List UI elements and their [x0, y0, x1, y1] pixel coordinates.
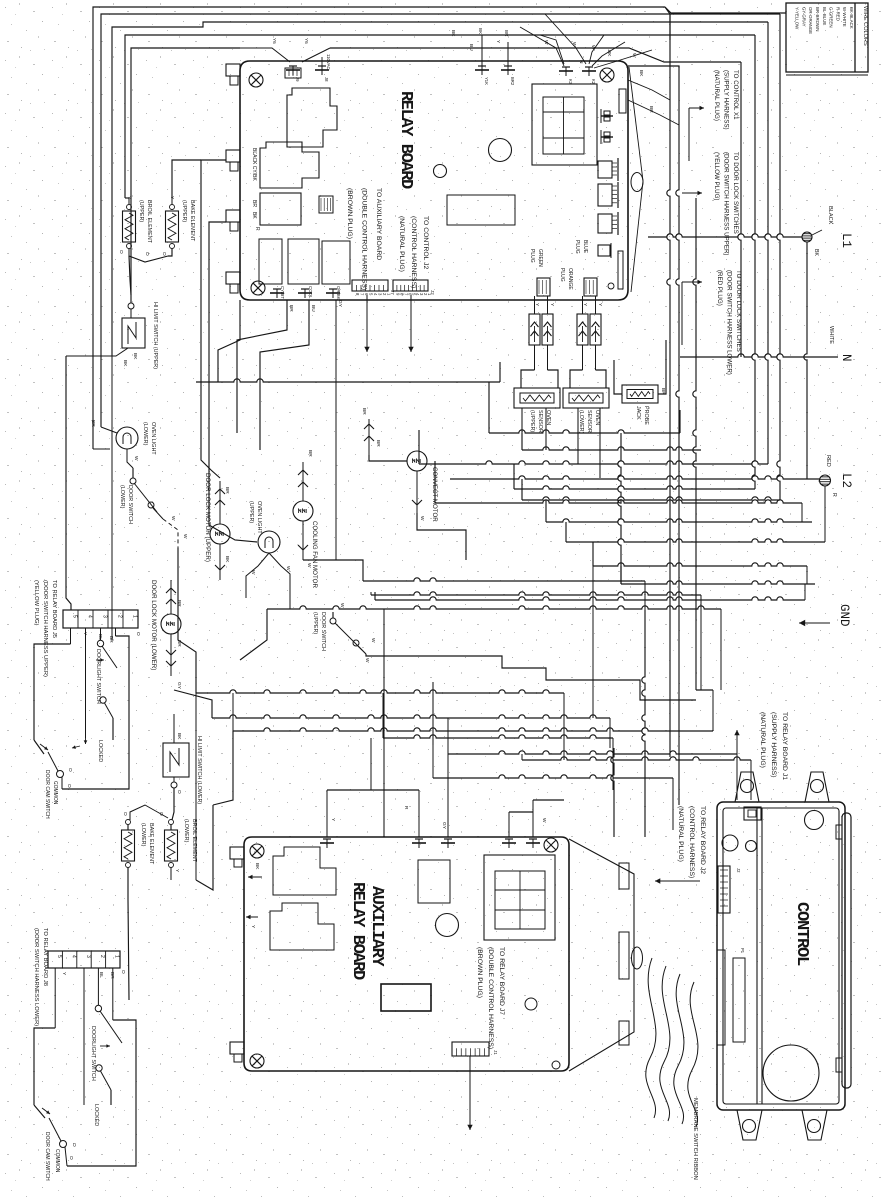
wire vertical x645 lower	[642, 610, 645, 837]
svg-text:BK: BK	[638, 70, 644, 77]
svg-text:BLACK CY/BK: BLACK CY/BK	[251, 148, 257, 181]
label R under L2	[831, 493, 837, 497]
aux screw bottom-left	[250, 1054, 264, 1068]
connector top BR2	[501, 30, 515, 86]
convect motor	[407, 451, 427, 471]
door switch lower dashes	[163, 516, 196, 693]
svg-text:RELAY BOARD: RELAY BOARD	[348, 882, 367, 980]
svg-text:TO AUXILIARY BOARD: TO AUXILIARY BOARD	[375, 188, 382, 260]
relay K4 rect	[259, 239, 282, 284]
svg-text:(CONTROL HARNESS): (CONTROL HARNESS)	[688, 806, 695, 878]
svg-text:COOLING FAN MOTOR: COOLING FAN MOTOR	[311, 521, 318, 588]
control big circle	[763, 1045, 819, 1101]
svg-text:BLUE: BLUE	[582, 240, 588, 254]
text probe jack	[635, 406, 649, 425]
svg-text:Y6: Y6	[304, 38, 309, 44]
svg-text:O: O	[161, 252, 167, 256]
svg-text:BL-BLUE: BL-BLUE	[822, 7, 827, 25]
svg-text:BK: BK	[813, 249, 819, 256]
svg-text:(LOWER): (LOWER)	[119, 485, 125, 509]
svg-text:SENSOR: SENSOR	[586, 410, 592, 433]
wire rail 760	[522, 754, 751, 800]
wire below board drop 2	[260, 300, 309, 450]
door switch upper	[330, 612, 366, 654]
svg-text:W: W	[370, 638, 376, 643]
wire vertical x201 from board tab	[201, 160, 226, 478]
text oven sensor lower	[578, 410, 600, 434]
svg-text:3: 3	[102, 615, 108, 618]
wire right verticals lower	[611, 198, 713, 837]
svg-text:O: O	[158, 812, 164, 816]
wire vertical right x670	[667, 14, 670, 757]
door lock motor lower wires	[166, 580, 182, 690]
svg-text:(DOOR SWITCH HARNESS LOWER): (DOOR SWITCH HARNESS LOWER)	[726, 270, 733, 375]
text door lock motor lower	[150, 580, 157, 670]
relay board left tab labels	[251, 148, 260, 231]
svg-text:BK: BK	[606, 50, 612, 57]
svg-text:Y6: Y6	[272, 38, 277, 44]
svg-text:DOOR LOCK MOTOR (UPPER): DOOR LOCK MOTOR (UPPER)	[204, 473, 211, 562]
text broil element upper	[138, 200, 152, 244]
svg-text:R: R	[403, 806, 409, 810]
aux board right fold	[569, 839, 643, 1071]
wire L1 feed	[648, 234, 802, 237]
control connector strip	[718, 866, 741, 913]
text hi limit switch lower	[196, 736, 202, 804]
door cam switch upper	[34, 740, 73, 789]
svg-text:BR2: BR2	[510, 77, 515, 86]
wire sensor drains	[522, 408, 600, 478]
wire N rail	[680, 354, 838, 357]
wire outer loop 3	[112, 22, 768, 356]
svg-text:(LOWER): (LOWER)	[578, 410, 584, 434]
svg-text:LOCKED: LOCKED	[93, 1104, 99, 1126]
text oven sensor upper	[529, 410, 551, 433]
svg-text:BK: BK	[132, 353, 138, 360]
svg-text:PLUG: PLUG	[559, 268, 565, 282]
wire rail 500	[522, 479, 780, 500]
hi limit switch upper	[122, 303, 145, 348]
connector right module 2	[598, 182, 618, 208]
svg-text:4: 4	[87, 615, 93, 618]
svg-text:TO DOOR LOCK SWITCHES: TO DOOR LOCK SWITCHES	[735, 270, 742, 352]
hi limit switch lower	[163, 714, 189, 820]
relay K7 rect wide	[447, 195, 515, 225]
svg-text:BR: BR	[176, 640, 182, 647]
wire loop 5	[131, 48, 240, 303]
svg-text:J9: J9	[295, 77, 300, 82]
aux circle small	[525, 998, 537, 1010]
text membrane switch ribbon	[692, 1098, 698, 1180]
svg-text:TO RELAY BOARD J8: TO RELAY BOARD J8	[42, 928, 48, 986]
wire vertical right x741	[330, 48, 741, 357]
svg-text:GY-GRAY: GY-GRAY	[801, 7, 806, 27]
svg-text:(SUPPLY HARNESS): (SUPPLY HARNESS)	[770, 712, 777, 777]
svg-text:(DOOR SWITCH HARNESS UPPER): (DOOR SWITCH HARNESS UPPER)	[42, 580, 48, 677]
text to auxiliary board	[346, 188, 382, 290]
wire vertical right x679	[628, 66, 679, 805]
svg-text:BR: BR	[108, 636, 114, 643]
aux board title	[348, 882, 386, 980]
wire outer loop 1	[93, 7, 786, 449]
oven sensor upper body	[514, 388, 560, 408]
control outline	[717, 802, 851, 1110]
doorlight switch lower circuit	[34, 968, 136, 1166]
relay K2 stepped outline	[260, 142, 319, 188]
control ear top-right	[805, 772, 829, 802]
wire rail 738	[383, 693, 613, 790]
svg-text:1: 1	[114, 955, 120, 958]
arrow to relay board j2	[655, 878, 700, 883]
svg-text:(DOUBLE CONTROL HARNESS): (DOUBLE CONTROL HARNESS)	[487, 947, 494, 1049]
text bake element upper	[181, 200, 195, 242]
svg-text:W: W	[543, 40, 549, 45]
text hi limit switch upper	[152, 302, 158, 369]
control circle top-right	[805, 811, 824, 830]
wire rail 693	[196, 690, 564, 760]
terminal L1	[802, 230, 822, 479]
svg-text:TO CONTROL X1: TO CONTROL X1	[732, 70, 739, 120]
wire rail 542	[566, 522, 825, 542]
connector right plug 1	[601, 109, 613, 123]
relay K6 rect	[322, 241, 350, 284]
svg-text:HI LIMIT SWITCH (UPPER): HI LIMIT SWITCH (UPPER)	[152, 302, 158, 369]
text convect motor	[431, 467, 438, 522]
svg-text:(LOWER): (LOWER)	[142, 422, 148, 446]
board edge oval cutout	[631, 173, 643, 192]
svg-text:HI LIMIT SWITCH (LOWER): HI LIMIT SWITCH (LOWER)	[196, 736, 202, 804]
green plug connector	[529, 249, 555, 307]
svg-text:O: O	[68, 1156, 74, 1160]
svg-text:5: 5	[72, 615, 78, 618]
svg-text:BK: BK	[251, 212, 257, 219]
svg-text:BLACK: BLACK	[827, 206, 833, 225]
svg-text:(DOUBLE CONTROL HARNESS): (DOUBLE CONTROL HARNESS)	[361, 188, 368, 290]
wire drop J2 arrow	[408, 295, 413, 352]
wire rail 433	[489, 382, 680, 433]
aux relay stepped 2	[270, 903, 334, 950]
svg-text:CY/BT: CY/BT	[280, 286, 285, 299]
svg-text:(YELLOW PLUG): (YELLOW PLUG)	[713, 152, 720, 200]
terminal L2	[820, 475, 831, 542]
right edge strip 2	[608, 251, 623, 289]
svg-text:R: R	[831, 493, 837, 497]
element upper feed wires	[118, 160, 201, 295]
label Y bake upper	[169, 196, 175, 200]
svg-text:4: 4	[70, 955, 76, 958]
bake element lower	[122, 820, 135, 1001]
svg-text:SENSOR: SENSOR	[537, 410, 543, 433]
connector top K3	[559, 67, 573, 85]
svg-text:BR: BR	[375, 440, 381, 447]
svg-text:W: W	[631, 53, 637, 58]
text to control j2	[398, 216, 429, 288]
svg-text:K2: K2	[591, 79, 596, 85]
wire from board corner to x670	[628, 80, 679, 125]
board circle small	[434, 165, 447, 178]
svg-text:K3: K3	[568, 79, 573, 85]
svg-text:J2: J2	[430, 290, 435, 295]
svg-text:O: O	[71, 1143, 77, 1147]
text to door lock switches upper	[713, 152, 739, 255]
wire rail 489	[514, 464, 755, 489]
wire vertical right x755	[752, 35, 755, 489]
wire vertical x621 lower	[618, 433, 621, 584]
connector top funnel 1	[240, 38, 330, 82]
j5 wire labels	[82, 632, 141, 643]
svg-text:BR: BR	[224, 487, 230, 494]
text doorlight switch lower	[90, 1026, 99, 1126]
text door switch lower	[119, 485, 133, 524]
text door cam switch lower	[44, 1132, 60, 1181]
aux relay rect 2	[381, 984, 431, 1011]
svg-text:BK-BLACK: BK-BLACK	[849, 7, 854, 29]
svg-text:TO DOOR LOCK SWITCHES: TO DOOR LOCK SWITCHES	[732, 152, 739, 234]
text door switch upper	[312, 612, 326, 651]
svg-text:(BROWN PLUG): (BROWN PLUG)	[476, 947, 483, 998]
svg-text:BK: BK	[450, 30, 456, 37]
wire feeds aux board top	[327, 790, 564, 837]
svg-text:GND: GND	[837, 604, 851, 627]
svg-text:JACK: JACK	[635, 406, 641, 420]
wire rail 609	[240, 606, 721, 690]
probe jack wires	[614, 340, 666, 394]
relay board mounting screw top-right	[600, 68, 614, 82]
connector bottom COOL	[298, 286, 316, 312]
door lock motor upper	[210, 524, 230, 544]
svg-text:W: W	[590, 45, 596, 50]
text to relay board j1 supply harness	[759, 712, 788, 780]
wire rail 584	[621, 566, 815, 584]
door lock motor lower	[161, 614, 181, 634]
wire outer loop 2	[101, 14, 780, 427]
svg-text:W: W	[419, 516, 425, 521]
svg-text:Y-YELLOW: Y-YELLOW	[795, 7, 800, 30]
svg-text:(DOOR SWITCH HARNESS LOWER): (DOOR SWITCH HARNESS LOWER)	[33, 928, 39, 1026]
svg-text:P1: P1	[740, 948, 745, 954]
bake element upper	[166, 198, 179, 256]
oven light upper	[258, 531, 280, 553]
svg-text:J1: J1	[493, 1050, 498, 1055]
label BR probe	[660, 388, 666, 395]
auxiliary relay board outline	[244, 837, 569, 1071]
wire vertical x433 lower	[432, 682, 434, 745]
text oven light lower	[142, 422, 156, 455]
wire colors legend box	[786, 3, 868, 75]
svg-text:COMMON: COMMON	[54, 1149, 60, 1173]
text oven light upper	[248, 501, 262, 534]
svg-text:BR: BR	[251, 200, 257, 207]
svg-text:AUXILIARY: AUXILIARY	[367, 886, 386, 967]
wire rail 450	[522, 433, 701, 450]
svg-text:DOORLIGHT SWITCH: DOORLIGHT SWITCH	[95, 649, 101, 704]
broil element lower	[165, 820, 178, 881]
wire rail 464	[419, 430, 768, 464]
svg-text:W: W	[364, 658, 370, 663]
probe jack body	[622, 385, 658, 403]
connector top Y1K	[475, 28, 489, 85]
svg-text:DOOR SWITCH: DOOR SWITCH	[320, 612, 326, 651]
svg-text:(CONTROL HARNESS): (CONTROL HARNESS)	[410, 216, 417, 288]
svg-text:RELAY BOARD: RELAY BOARD	[396, 91, 415, 189]
wire rail 754	[448, 718, 737, 800]
oven light lower	[116, 427, 138, 449]
aux relay rect 1	[418, 860, 450, 903]
ground arrow	[799, 620, 830, 626]
control right notches	[836, 825, 842, 1072]
svg-text:RED: RED	[825, 455, 831, 467]
oven sensor lower connector	[577, 314, 601, 345]
svg-text:(LOWER): (LOWER)	[140, 823, 146, 847]
svg-text:W: W	[182, 534, 188, 539]
svg-text:(SUPPLY HARNESS): (SUPPLY HARNESS)	[723, 70, 730, 130]
svg-text:ORANGE: ORANGE	[567, 268, 573, 290]
text to door lock switches lower	[716, 270, 742, 375]
wire vertical right x768	[765, 22, 768, 464]
svg-text:BAKE ELEMENT: BAKE ELEMENT	[189, 200, 195, 242]
svg-text:WIRE COLORS: WIRE COLORS	[862, 6, 868, 46]
svg-text:OR-ORANGE: OR-ORANGE	[808, 7, 813, 34]
svg-text:J2: J2	[736, 868, 741, 873]
wire drop J7 arrow	[364, 295, 369, 352]
svg-text:PROBE: PROBE	[643, 406, 649, 425]
svg-text:BK: BK	[122, 360, 128, 367]
relay board title	[396, 91, 415, 189]
svg-text:W: W	[306, 563, 312, 568]
svg-text:BAKE ELEMENT: BAKE ELEMENT	[148, 823, 154, 865]
oven sensor upper wires	[521, 296, 558, 388]
connector right module 1	[598, 158, 618, 181]
text broil element lower	[183, 819, 197, 863]
svg-text:W: W	[541, 818, 547, 823]
aux top edge connectors	[320, 839, 540, 848]
control ear bottom-left	[737, 1110, 762, 1140]
svg-text:O: O	[120, 970, 126, 974]
svg-text:OVEN LIGHT: OVEN LIGHT	[150, 422, 156, 455]
display footprint	[532, 84, 597, 165]
label WHITE	[828, 326, 834, 344]
aux display footprint	[484, 855, 555, 940]
wire below board drop 3	[335, 300, 337, 560]
svg-text:(NATURAL PLUG): (NATURAL PLUG)	[677, 806, 684, 862]
wire rail 731	[233, 690, 713, 731]
relay K1 stepped outline	[287, 88, 337, 147]
svg-text:W: W	[170, 516, 176, 521]
wire rail 718	[174, 690, 610, 748]
door switch lower	[130, 468, 163, 519]
arrow to relay board j1	[734, 730, 739, 800]
svg-text:CONTROL: CONTROL	[792, 902, 811, 966]
door cam switch lower	[34, 1105, 77, 1166]
svg-text:GY: GY	[337, 300, 343, 308]
relay board outline	[240, 61, 643, 300]
control title	[792, 902, 811, 966]
svg-text:DOOR LOCK MOTOR (LOWER): DOOR LOCK MOTOR (LOWER)	[150, 580, 157, 670]
svg-text:BR: BR	[109, 972, 115, 979]
relay board mounting screw bottom-left	[251, 281, 265, 295]
svg-text:(BROWN PLUG): (BROWN PLUG)	[346, 188, 353, 239]
connector J7 strip	[352, 280, 395, 296]
label BK under L1	[813, 249, 819, 256]
svg-text:O: O	[122, 812, 128, 816]
svg-text:BK: BK	[478, 28, 483, 35]
svg-text:R: R	[254, 227, 260, 231]
svg-text:G-GREEN: G-GREEN	[829, 7, 834, 28]
svg-text:W-WHITE: W-WHITE	[842, 7, 847, 27]
wire outer loop 4	[125, 35, 755, 198]
svg-text:(UPPER): (UPPER)	[248, 501, 254, 523]
text to relay board j5	[33, 580, 57, 677]
orange plug connector	[559, 268, 603, 307]
svg-text:DOOR SWITCH: DOOR SWITCH	[127, 485, 133, 524]
text to control x1 supply harness	[713, 70, 739, 130]
broil element upper	[123, 198, 136, 256]
svg-text:DOOR CAM SWITCH: DOOR CAM SWITCH	[44, 1132, 50, 1181]
label L2	[839, 473, 853, 488]
svg-text:(UPPER): (UPPER)	[181, 200, 187, 222]
svg-text:BR: BR	[90, 420, 96, 427]
svg-text:N: N	[839, 354, 853, 362]
svg-text:TO RELAY BOARD J1: TO RELAY BOARD J1	[781, 712, 788, 780]
control small rect top	[744, 807, 761, 820]
label BK hi limit lower	[176, 733, 182, 794]
aux screw top-right	[544, 838, 558, 852]
svg-text:WHITE: WHITE	[828, 326, 834, 344]
svg-text:(NATURAL PLUG): (NATURAL PLUG)	[713, 70, 720, 121]
svg-text:BR: BR	[307, 450, 313, 457]
wire vertical x593 lower	[592, 566, 594, 718]
svg-text:BK: BK	[224, 556, 230, 563]
svg-text:5: 5	[56, 955, 62, 958]
text door cam switch upper	[44, 770, 58, 819]
svg-text:TO RELAY BOARD J7: TO RELAY BOARD J7	[498, 947, 505, 1015]
svg-text:BR: BR	[176, 600, 182, 607]
svg-text:BR: BR	[504, 30, 509, 37]
text to relay board j7	[476, 947, 505, 1049]
door lock motor upper wires	[215, 481, 230, 580]
relay K3 outline	[260, 193, 301, 225]
wire vertical right x780	[777, 14, 780, 500]
svg-text:COOL: COOL	[308, 286, 313, 299]
text to relay board j2 control harness	[677, 806, 706, 878]
wire L2 rail	[450, 476, 820, 479]
connector top 110V	[315, 54, 331, 82]
wire rail 566	[593, 542, 807, 584]
svg-text:W: W	[285, 566, 291, 571]
svg-text:O: O	[67, 768, 73, 772]
svg-text:BU: BU	[468, 44, 474, 51]
svg-text:LOCKED: LOCKED	[97, 740, 103, 762]
hi limit switch upper wires	[66, 348, 138, 640]
svg-text:(UPPER): (UPPER)	[138, 200, 144, 222]
svg-text:W: W	[339, 603, 345, 608]
control circles top	[722, 835, 757, 852]
cooling fan motor	[293, 501, 313, 521]
wire below board left	[196, 300, 500, 382]
control strip 2	[717, 950, 725, 1045]
svg-text:GREEN: GREEN	[537, 249, 543, 267]
wire labels top-left of board	[450, 30, 501, 51]
oven light upper wires	[246, 553, 291, 609]
svg-text:J8: J8	[324, 77, 329, 82]
wire vertical x209 from board tab	[209, 222, 257, 542]
arrow to control x1	[689, 106, 704, 161]
wire aux left region	[196, 693, 233, 890]
control ear bottom-right	[802, 1110, 827, 1140]
wire rail 503	[435, 461, 802, 522]
svg-text:BR: BR	[288, 305, 294, 312]
svg-text:L1: L1	[839, 233, 853, 248]
